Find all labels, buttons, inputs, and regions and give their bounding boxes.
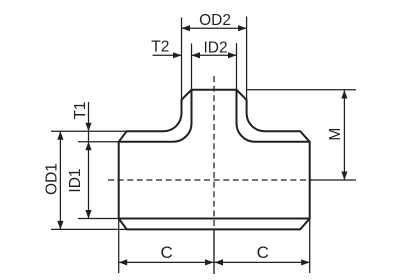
arrow OD1 down [57,221,63,230]
extension line center below [213,229,215,274]
extension line left end below [118,219,120,273]
extension line right end below [309,219,311,273]
dimension M line [343,90,345,180]
svg-text:T1: T1 [72,101,89,119]
svg-text:C: C [257,243,269,262]
svg-text:ID1: ID1 [67,168,84,192]
dimension C right line [214,261,310,263]
extension line centerline to M [310,179,356,181]
svg-text:M: M [327,128,344,141]
arrow OD1 up [57,131,63,140]
arrow OD2 left [182,25,191,31]
extension line branch outer right [246,17,248,100]
arrow ID2 left [192,52,201,58]
extension line run bore top (left) [78,141,119,143]
svg-text:OD2: OD2 [199,12,231,29]
run bore top-left line with inner fillet [119,90,192,142]
arrow C left inner [205,259,214,265]
arrow C right inner [215,259,224,265]
extension line branch top face to M [247,89,356,91]
arrow OD2 right [238,25,247,31]
arrow ID2 right [228,52,237,58]
run bore top-right line with inner fillet [237,90,310,142]
arrow M up [341,90,347,99]
arrow C left outer [119,259,128,265]
dimension C left line [119,261,214,263]
arrow M down [341,172,347,181]
dimension OD1 line [59,131,61,229]
extension line run bore bottom (left) [78,218,119,220]
dimension T1 / ID1 line [88,102,90,219]
svg-text:OD1: OD1 [43,163,60,195]
dimension OD2 line [182,27,247,29]
extension line run outer top (left) [51,130,127,132]
svg-text:C: C [160,243,172,262]
horizontal centerline [108,179,312,181]
arrow T2 [173,52,182,58]
extension line run outer bottom (left) [51,228,127,230]
extension line branch bore right [236,43,238,90]
arrow ID1 up [85,142,91,151]
extension line branch bore left [191,44,193,90]
arrow ID1 down [85,210,91,219]
arrow C right outer [301,259,310,265]
arrow T1 down [85,123,91,132]
vertical centerline [213,76,215,229]
dimension ID2 line [192,54,237,56]
svg-text:ID2: ID2 [203,40,227,57]
extension line branch outer left [181,18,183,100]
tee body outer outline [119,90,310,230]
run bore bottom line [119,218,310,220]
svg-text:T2: T2 [151,38,169,55]
dimension T2 leader line [153,54,182,56]
